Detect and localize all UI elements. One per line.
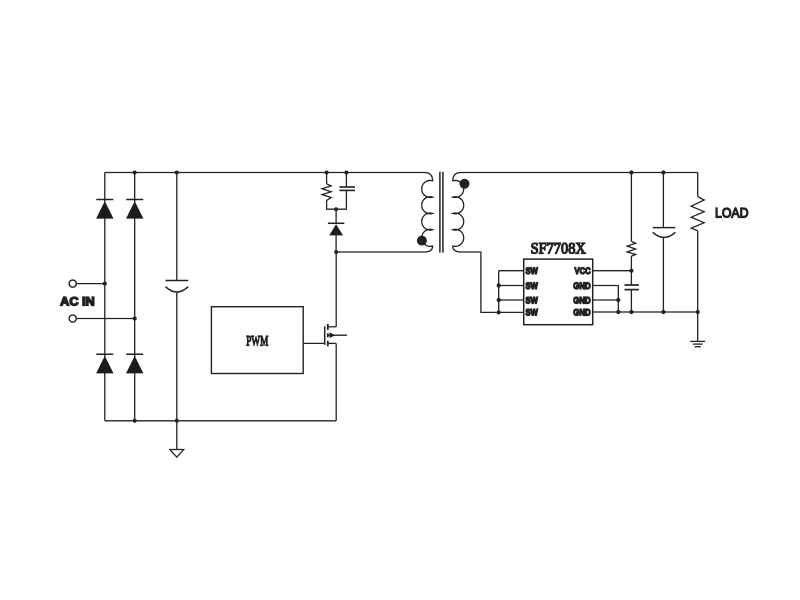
- junction: bottom rail at bulk cap / ground: [175, 419, 179, 423]
- junction: top rail at snubber C: [344, 171, 348, 175]
- transformer T1 primary polarity dot: [417, 236, 427, 246]
- wire: gate from PWM to Q1: [303, 342, 324, 344]
- wire: pin 1 SW stub: [499, 270, 524, 272]
- junction: top rail at snubber R: [325, 171, 329, 175]
- resistor RL LOAD: [691, 173, 704, 313]
- diode D5 snubber clamp: [328, 209, 344, 252]
- svg-text:PWM: PWM: [246, 333, 268, 349]
- junction: bottom rail at load: [696, 310, 700, 314]
- junction: GND riser at pin 7: [616, 298, 620, 302]
- capacitor C2 snubber: [336, 173, 355, 210]
- capacitor C3 VCC decoupling: [625, 271, 639, 312]
- svg-text:VCC: VCC: [575, 266, 591, 277]
- svg-text:SW: SW: [526, 266, 538, 277]
- capacitor C4 output electrolytic: [653, 173, 676, 313]
- junction: snubber bottom node: [334, 207, 338, 211]
- wire: AC top terminal to bridge: [76, 283, 105, 285]
- junction: AC top on left branch: [103, 282, 107, 286]
- AC input terminal bottom: [69, 315, 76, 322]
- junction: bottom rail at right branch: [133, 419, 137, 423]
- diode D2: [126, 200, 143, 219]
- IC U2 SF7708X box: [524, 259, 593, 325]
- junction: VCC node: [629, 269, 633, 273]
- wire: pin 3 SW stub: [499, 299, 524, 301]
- ground: primary (open triangle): [170, 421, 184, 457]
- junction: drain node: [334, 250, 338, 254]
- svg-text:GND: GND: [573, 281, 591, 292]
- junction: bus at pin 4: [497, 310, 501, 314]
- wire: bridge right branch: [134, 173, 136, 421]
- svg-text:AC IN: AC IN: [60, 297, 94, 309]
- diode D4: [126, 354, 143, 373]
- junction: bottom rail at GND riser: [616, 310, 620, 314]
- diode D1: [96, 200, 113, 219]
- wire: pin 2 SW stub: [499, 285, 524, 287]
- wire: VCC pin to node: [593, 270, 632, 272]
- diode D3: [96, 354, 113, 373]
- wire: drain up to node: [335, 252, 337, 327]
- svg-text:SW: SW: [526, 281, 538, 292]
- svg-text:GND: GND: [573, 295, 591, 306]
- svg-text:SW: SW: [526, 295, 538, 306]
- AC input terminal top: [69, 280, 76, 287]
- transformer T1 secondary polarity dot: [460, 179, 470, 189]
- junction: bottom rail at VCC branch: [629, 310, 633, 314]
- junction: top rail at C4: [661, 170, 665, 174]
- junction: top rail at bulk cap: [175, 171, 179, 175]
- ground: secondary (earth): [690, 312, 705, 347]
- svg-text:SF7708X: SF7708X: [531, 241, 586, 258]
- wire: GND pin 7 stub: [593, 299, 619, 301]
- wire: source down to bottom rail: [335, 343, 337, 420]
- svg-text:SW: SW: [526, 308, 538, 319]
- wire: SW bus vertical: [498, 271, 500, 313]
- PWM controller U1 box: [211, 307, 303, 374]
- wire: primary top rail with transformer primary winding: [105, 173, 433, 253]
- wire: secondary bottom rail from GND pin 8 to load: [593, 311, 698, 313]
- svg-text:GND: GND: [573, 308, 591, 319]
- junction: top rail at right branch: [133, 171, 137, 175]
- junction: top rail at R2: [629, 170, 633, 174]
- wire: GND pin 6 over and down: [593, 286, 619, 313]
- wire: secondary top rail with transformer secondary winding and drop to SW bus: [453, 173, 698, 313]
- transformer T1 core: [440, 172, 443, 253]
- wire: bridge left branch: [104, 173, 106, 421]
- wire: AC bottom terminal to bridge: [76, 318, 134, 320]
- junction: bus at pin 2: [497, 283, 501, 287]
- resistor R1 snubber: [322, 173, 336, 210]
- capacitor C1 bulk electrolytic: [166, 173, 189, 421]
- transistor Q1 MOSFET: [325, 324, 347, 346]
- resistor R2 VCC feed: [627, 173, 635, 271]
- junction: AC bottom on right branch: [133, 317, 137, 321]
- svg-text:LOAD: LOAD: [715, 205, 749, 221]
- junction: bottom rail at output cap: [661, 310, 665, 314]
- junction: bus at pin 3: [497, 298, 501, 302]
- wire: primary bottom rail: [105, 420, 336, 422]
